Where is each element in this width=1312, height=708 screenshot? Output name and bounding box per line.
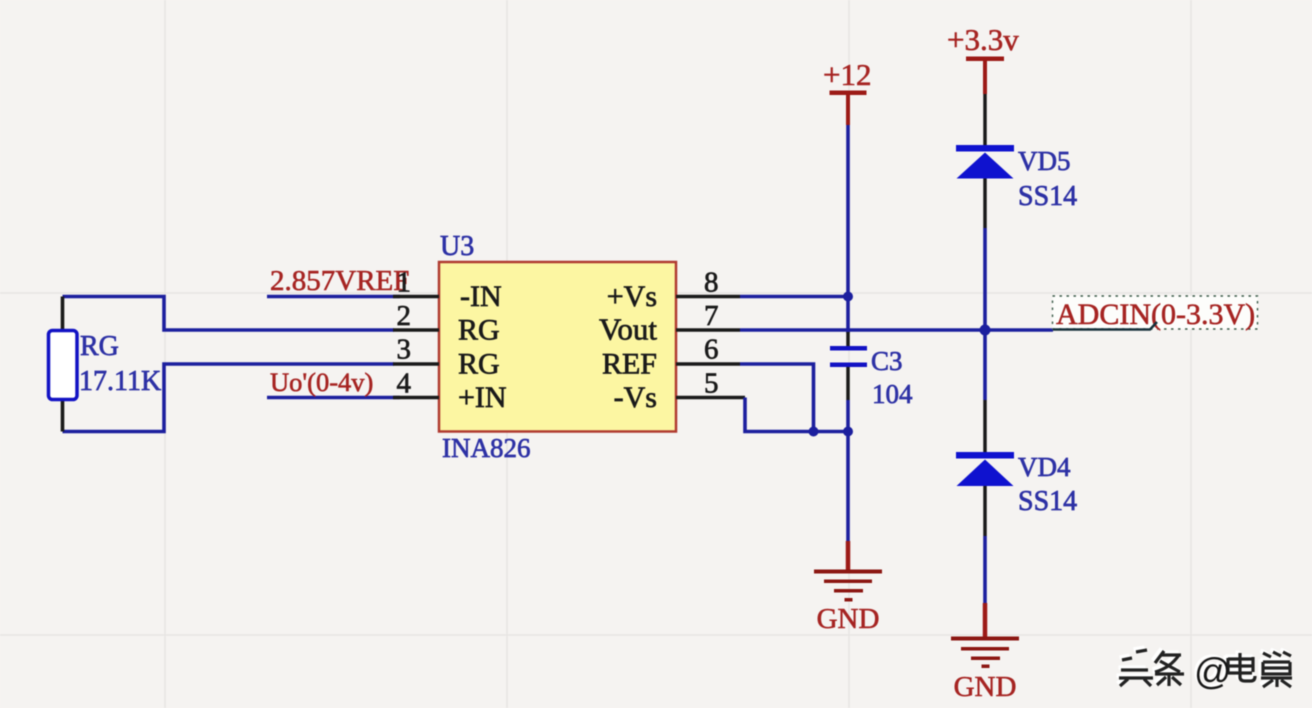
svg-text:RG: RG (458, 314, 500, 347)
wire pin7 Vout to ADCIN (740, 328, 1053, 332)
svg-text:5: 5 (704, 368, 719, 400)
svg-text:17.11K: 17.11K (79, 366, 161, 397)
junction GND net (843, 427, 853, 437)
capacitor C3 plates (830, 346, 867, 351)
ground GND (top) (814, 541, 882, 635)
svg-text:ADCIN(0-3.3V): ADCIN(0-3.3V) (1056, 298, 1255, 331)
pin 5 (-Vs) (676, 396, 745, 400)
svg-text:INA826: INA826 (442, 433, 531, 463)
pin 7 (Vout) (676, 328, 740, 332)
svg-text:2.857VREF: 2.857VREF (270, 265, 409, 297)
capacitor C3 pin bottom (846, 367, 850, 400)
svg-text:@: @ (1194, 651, 1232, 692)
svg-text:VD4: VD4 (1018, 452, 1071, 482)
diode VD5 pin top (983, 94, 987, 146)
svg-text:-IN: -IN (460, 280, 502, 313)
svg-text:GND: GND (817, 603, 880, 635)
pin 4 (+IN) (393, 396, 439, 400)
svg-text:+3.3v: +3.3v (947, 22, 1019, 57)
svg-text:6: 6 (704, 334, 719, 366)
svg-text:VD5: VD5 (1018, 146, 1071, 176)
watermark 头条@电巢 (1117, 648, 1293, 693)
wire +12 rail down (846, 125, 850, 333)
resistor RG body (49, 331, 78, 400)
IC U3 body (439, 262, 676, 432)
svg-text:3: 3 (397, 334, 412, 366)
svg-text:7: 7 (704, 300, 719, 332)
pin 8 (+Vs) (676, 295, 740, 299)
svg-text:104: 104 (872, 379, 913, 409)
diode VD4 cathode bar (956, 452, 1014, 459)
wire net 2.857VREF to pin1 (267, 295, 400, 299)
svg-text:-Vs: -Vs (614, 381, 657, 414)
wire C3 bottom to GND (846, 400, 850, 541)
diode VD5 cathode bar (956, 145, 1014, 152)
svg-text:+12: +12 (823, 57, 871, 92)
wire pin6 REF down (740, 364, 814, 432)
svg-text:GND: GND (954, 671, 1017, 703)
resistor RG pin bottom (61, 399, 65, 432)
diode VD5 pin bottom (983, 179, 987, 229)
capacitor C3 pin top (846, 332, 850, 346)
wire VD4 to GND (983, 536, 987, 603)
svg-text:1: 1 (397, 267, 412, 299)
svg-text:RG: RG (458, 348, 500, 381)
diode VD5 body (957, 153, 1014, 179)
svg-text:Uo'(0-4v): Uo'(0-4v) (270, 367, 373, 397)
svg-text:2: 2 (397, 300, 412, 332)
diode VD4 body (957, 460, 1014, 487)
svg-text:SS14: SS14 (1018, 181, 1077, 212)
pin 6 (REF) (676, 362, 740, 366)
net label ADCIN(0-3.3V) box (1053, 296, 1258, 329)
svg-text:8: 8 (704, 267, 719, 299)
resistor RG pin top (61, 297, 65, 332)
svg-text:Vout: Vout (599, 312, 657, 347)
wire pin5 -Vs down and right (745, 398, 848, 432)
svg-text:SS14: SS14 (1018, 486, 1077, 517)
pin 3 (RG) (393, 362, 439, 366)
wire net Uo to pin4 (267, 396, 400, 400)
pin 2 (RG) (393, 328, 439, 332)
junction ADCIN node (980, 325, 991, 336)
junction pin8/+12 (843, 292, 853, 302)
svg-text:REF: REF (602, 348, 657, 381)
junction REF net (809, 427, 819, 437)
wire resistor top to pin2 (63, 297, 395, 331)
wire under ADCIN label (1053, 322, 1157, 330)
power +12 (823, 57, 871, 125)
ground GND (bottom) (951, 603, 1019, 703)
pin 1 (-IN) (393, 295, 439, 299)
svg-text:4: 4 (397, 368, 412, 400)
svg-text:+Vs: +Vs (607, 280, 657, 313)
diode VD4 pin top (983, 400, 987, 453)
wire VD5 to node (983, 228, 987, 400)
svg-text:+IN: +IN (458, 381, 507, 414)
svg-text:C3: C3 (871, 346, 903, 376)
diode VD4 pin bottom (983, 486, 987, 536)
power +3.3v (947, 22, 1019, 94)
wire resistor bottom to pin3 (63, 364, 395, 432)
svg-text:RG: RG (80, 331, 119, 362)
wire pin8 to +12 rail (740, 295, 848, 299)
svg-text:U3: U3 (440, 231, 474, 262)
